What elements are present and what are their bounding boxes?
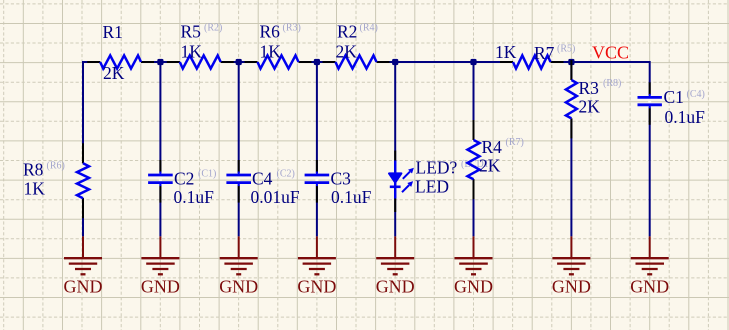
svg-text:(R8): (R8) bbox=[603, 78, 621, 89]
svg-text:LED: LED bbox=[415, 176, 449, 196]
svg-text:(R4): (R4) bbox=[360, 23, 378, 34]
svg-text:0.01uF: 0.01uF bbox=[251, 187, 300, 207]
svg-text:R4: R4 bbox=[482, 137, 503, 157]
wire LED branch bbox=[394, 61, 396, 236]
diode LED? bbox=[389, 151, 458, 213]
svg-text:(R6): (R6) bbox=[47, 161, 65, 172]
resistor R6 bbox=[245, 22, 312, 69]
svg-text:R7: R7 bbox=[534, 43, 555, 63]
svg-text:(C1): (C1) bbox=[198, 169, 216, 180]
ground GND 1 bbox=[64, 236, 103, 296]
capacitor C4 bbox=[226, 160, 299, 207]
node junction 5 bbox=[470, 59, 476, 65]
svg-text:1K: 1K bbox=[24, 179, 46, 199]
capacitor C1 bbox=[638, 82, 706, 126]
svg-text:R2: R2 bbox=[337, 22, 357, 42]
svg-text:1K: 1K bbox=[181, 42, 203, 62]
svg-text:(R2): (R2) bbox=[204, 23, 222, 34]
svg-text:GND: GND bbox=[141, 277, 180, 297]
wire C2 branch bbox=[159, 61, 161, 236]
svg-text:2K: 2K bbox=[103, 63, 125, 83]
svg-text:R5: R5 bbox=[181, 22, 202, 42]
wire R3 branch bbox=[570, 61, 572, 236]
node junction 2 bbox=[236, 59, 242, 65]
wire C3 branch bbox=[316, 61, 318, 236]
svg-text:GND: GND bbox=[219, 277, 258, 297]
svg-text:C2: C2 bbox=[174, 169, 194, 189]
svg-text:(C2): (C2) bbox=[277, 169, 295, 180]
svg-text:(R3): (R3) bbox=[283, 23, 301, 34]
svg-text:1K: 1K bbox=[495, 42, 517, 62]
node junction 4 bbox=[392, 59, 398, 65]
svg-text:0.1uF: 0.1uF bbox=[331, 187, 372, 207]
ground GND 5 bbox=[376, 236, 415, 296]
svg-text:C1: C1 bbox=[664, 87, 684, 107]
wire main horizontal net bbox=[83, 61, 650, 63]
resistor R4 bbox=[468, 120, 524, 199]
wire R4 branch bbox=[473, 61, 475, 236]
svg-text:(R7): (R7) bbox=[506, 137, 524, 148]
ground GND 6 bbox=[454, 236, 493, 296]
node junction 6 bbox=[568, 59, 574, 65]
svg-text:GND: GND bbox=[376, 277, 415, 297]
svg-text:2K: 2K bbox=[579, 97, 601, 117]
svg-text:C4: C4 bbox=[252, 169, 273, 189]
svg-text:VCC: VCC bbox=[592, 43, 629, 63]
wire left drop to R8 bbox=[82, 61, 84, 236]
svg-text:R3: R3 bbox=[579, 78, 600, 98]
resistor R3 bbox=[566, 60, 621, 138]
svg-text:GND: GND bbox=[552, 277, 591, 297]
svg-text:2K: 2K bbox=[336, 42, 358, 62]
resistor R1 bbox=[87, 22, 154, 83]
svg-text:GND: GND bbox=[454, 277, 493, 297]
svg-text:LED?: LED? bbox=[416, 158, 458, 178]
resistor R7 bbox=[495, 42, 575, 69]
svg-text:R6: R6 bbox=[260, 22, 281, 42]
svg-text:R1: R1 bbox=[103, 22, 123, 42]
ground GND 8 bbox=[630, 236, 669, 296]
svg-text:2K: 2K bbox=[479, 156, 501, 176]
wire C1 branch bbox=[649, 61, 651, 236]
svg-text:GND: GND bbox=[64, 277, 103, 297]
svg-text:(R5): (R5) bbox=[557, 44, 575, 55]
resistor R2 bbox=[323, 22, 390, 69]
resistor R5 bbox=[167, 22, 234, 69]
ground GND 2 bbox=[141, 236, 180, 296]
node junction 1 bbox=[157, 59, 163, 65]
ground GND 3 bbox=[219, 236, 258, 296]
node junction 3 bbox=[314, 59, 320, 65]
svg-text:GND: GND bbox=[297, 277, 336, 297]
svg-text:GND: GND bbox=[630, 277, 669, 297]
capacitor C2 bbox=[148, 160, 216, 207]
svg-text:1K: 1K bbox=[260, 42, 282, 62]
wire C4 branch bbox=[238, 61, 240, 236]
ground GND 4 bbox=[297, 236, 336, 296]
svg-text:(C4): (C4) bbox=[687, 89, 705, 100]
svg-text:C3: C3 bbox=[331, 169, 352, 189]
ground GND 7 bbox=[552, 236, 591, 296]
svg-text:R8: R8 bbox=[23, 160, 44, 180]
svg-text:0.1uF: 0.1uF bbox=[174, 187, 215, 207]
svg-text:0.1uF: 0.1uF bbox=[665, 107, 706, 127]
capacitor C3 bbox=[305, 160, 372, 207]
resistor R8 bbox=[23, 143, 89, 218]
